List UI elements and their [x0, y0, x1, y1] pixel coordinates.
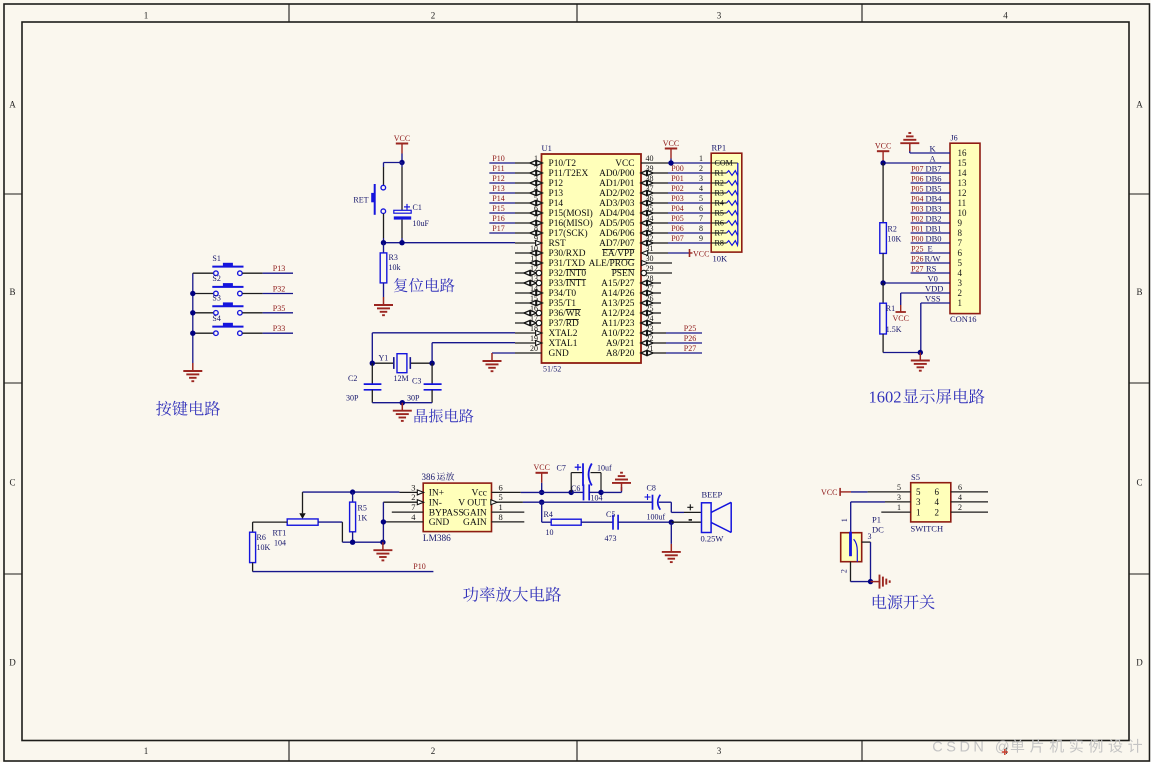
svg-text:RST: RST [549, 239, 566, 249]
wire V0 to R1 [882, 283, 884, 303]
svg-text:P14: P14 [549, 199, 564, 209]
net label P33 [273, 324, 285, 333]
net labels P25-P27 [641, 324, 702, 356]
svg-text:3: 3 [717, 746, 722, 756]
mcu U1 right pin names [589, 159, 635, 359]
resistor R2 [880, 223, 902, 254]
svg-text:V OUT: V OUT [458, 499, 487, 509]
junction [569, 490, 574, 495]
capacitor C2 [346, 363, 381, 403]
svg-text:30P: 30P [346, 394, 359, 403]
switch S2 [212, 274, 243, 296]
svg-text:2: 2 [431, 746, 436, 756]
svg-text:10uF: 10uF [413, 219, 430, 228]
svg-text:10K: 10K [713, 254, 729, 264]
svg-text:VDD: VDD [925, 283, 943, 293]
wire vcc to RET [384, 163, 403, 186]
svg-text:P25: P25 [911, 244, 923, 253]
svg-text:R1: R1 [886, 304, 895, 313]
svg-text:5: 5 [958, 258, 963, 268]
svg-text:P32/INT0: P32/INT0 [549, 269, 587, 279]
ground buttons [183, 363, 202, 381]
svg-text:BYPASS: BYPASS [429, 508, 464, 518]
connector P1 labels [872, 514, 884, 534]
power VCC amp [533, 463, 549, 492]
junction [190, 310, 195, 315]
wire in+ rail [303, 491, 400, 493]
svg-text:IN+: IN+ [429, 489, 444, 499]
wire S1 left [193, 272, 214, 274]
junction [399, 240, 404, 245]
svg-text:P06: P06 [911, 174, 923, 183]
svg-text:4: 4 [699, 184, 703, 193]
mcu U1 AD pin wires to RP1 [641, 171, 711, 246]
wire S4 left [193, 332, 214, 334]
junction [381, 240, 386, 245]
opamp pin stubs [383, 490, 524, 522]
wire P10 net [253, 571, 434, 573]
ground beep [662, 522, 681, 562]
svg-text:5: 5 [499, 492, 503, 502]
net label P13 [273, 264, 285, 273]
svg-text:P11/T2EX: P11/T2EX [549, 169, 589, 179]
svg-text:P33/INT1: P33/INT1 [549, 279, 587, 289]
svg-text:S5: S5 [911, 472, 920, 482]
svg-text:7: 7 [699, 214, 703, 223]
mcu U1 left pin stubs [515, 161, 542, 354]
svg-text:4: 4 [935, 497, 940, 507]
svg-text:V0: V0 [928, 273, 938, 283]
power VCC 1602 [875, 142, 891, 163]
wire XTAL2 net [372, 333, 515, 363]
resistor R4 [544, 510, 582, 537]
wire C8 to beep [659, 502, 702, 512]
svg-text:9: 9 [958, 218, 963, 228]
wire in- down [382, 502, 384, 542]
svg-text:P03: P03 [671, 194, 683, 203]
resistor R1 [880, 303, 902, 334]
svg-text:9: 9 [699, 234, 703, 243]
svg-text:6: 6 [499, 482, 503, 492]
svg-text:RS: RS [926, 263, 937, 273]
svg-text:R4: R4 [715, 199, 724, 208]
capacitor C5 [605, 510, 619, 543]
wire S5 pin1 [881, 511, 910, 513]
svg-text:2: 2 [958, 288, 963, 298]
svg-text:R3: R3 [715, 189, 724, 198]
svg-text:A14/P26: A14/P26 [601, 289, 635, 299]
pin31 EA wire [641, 251, 689, 256]
wire S5 pin3 [851, 501, 911, 503]
svg-text:AD0/P00: AD0/P00 [599, 169, 635, 179]
svg-text:P04: P04 [671, 204, 683, 213]
net labels P00-P07 [671, 164, 683, 243]
label beep plus [687, 504, 693, 510]
svg-text:S4: S4 [212, 314, 220, 323]
capacitor C1 [394, 203, 430, 228]
svg-text:P17(SCK): P17(SCK) [549, 228, 588, 239]
svg-text:P05: P05 [911, 184, 923, 193]
capacitor C3 [407, 363, 442, 403]
svg-text:XTAL1: XTAL1 [549, 339, 578, 349]
svg-text:VCC: VCC [394, 134, 410, 143]
wire S5 right pins [951, 492, 988, 512]
svg-text:CSDN @: CSDN @ [932, 740, 1013, 756]
wire beep minus [671, 521, 701, 523]
svg-text:P1: P1 [872, 514, 881, 524]
svg-text:P06: P06 [671, 224, 683, 233]
svg-text:8: 8 [499, 512, 503, 522]
svg-text:B: B [1136, 287, 1142, 297]
wire rst to R3 [383, 243, 385, 253]
svg-text:0.25W: 0.25W [701, 534, 724, 544]
svg-text:4: 4 [958, 268, 963, 278]
wire S4 right [242, 332, 293, 334]
svg-text:C1: C1 [413, 203, 422, 212]
svg-text:6: 6 [958, 248, 963, 258]
svg-text:1: 1 [144, 746, 149, 756]
svg-text:2: 2 [839, 569, 848, 573]
svg-text:A13/P25: A13/P25 [601, 299, 635, 309]
svg-text:VSS: VSS [925, 293, 941, 303]
svg-text:11: 11 [958, 198, 967, 208]
svg-text:2: 2 [431, 10, 436, 20]
svg-text:P11: P11 [492, 164, 504, 173]
label 晶振电路 [415, 409, 474, 423]
svg-text:12M: 12M [394, 374, 409, 383]
svg-text:R4: R4 [544, 510, 553, 519]
wire crystal gnd row [372, 402, 432, 404]
wire VDD row [901, 292, 950, 294]
label 按键电路 [156, 401, 220, 416]
mcu U1 body [542, 143, 642, 374]
svg-text:GAIN: GAIN [463, 518, 487, 528]
svg-text:AD2/P02: AD2/P02 [599, 189, 635, 199]
svg-text:AD4/P04: AD4/P04 [599, 209, 635, 219]
svg-text:DB5: DB5 [926, 183, 942, 193]
svg-text:C5: C5 [606, 510, 615, 519]
wire R2 to V0 [882, 253, 884, 283]
svg-text:P02: P02 [671, 184, 683, 193]
svg-text:R5: R5 [715, 209, 724, 218]
svg-text:AD6/P06: AD6/P06 [599, 229, 635, 239]
svg-text:U1: U1 [542, 143, 552, 153]
svg-text:1: 1 [840, 518, 849, 522]
junction [880, 280, 885, 285]
svg-text:P35/T1: P35/T1 [549, 299, 577, 309]
svg-text:R5: R5 [358, 504, 367, 513]
svg-text:51/52: 51/52 [543, 365, 561, 374]
svg-text:P13: P13 [492, 184, 504, 193]
svg-text:10: 10 [546, 528, 554, 537]
connector J6 pin names and nets [911, 143, 950, 303]
switch S4 [212, 314, 243, 336]
svg-text:AD7/P07: AD7/P07 [599, 239, 635, 249]
svg-text:386: 386 [422, 472, 436, 482]
svg-text:R7: R7 [715, 229, 724, 238]
wire S2 right [242, 293, 293, 295]
svg-text:A15/P27: A15/P27 [601, 279, 635, 289]
label beep minus [689, 519, 692, 521]
svg-text:P16: P16 [492, 214, 504, 223]
svg-text:S3: S3 [212, 293, 220, 302]
wire RET to rst [383, 214, 385, 243]
svg-text:1: 1 [699, 154, 703, 163]
watermark CSDN [932, 739, 1142, 756]
label 1602显示屏电路 [869, 388, 985, 407]
svg-text:1: 1 [499, 502, 503, 512]
svg-text:R2: R2 [888, 225, 897, 234]
wire vout to R4 [542, 502, 552, 522]
wire S3 right [242, 312, 293, 314]
svg-text:10: 10 [958, 208, 968, 218]
svg-text:ALE/PROG: ALE/PROG [589, 259, 635, 269]
svg-text:COM: COM [715, 159, 733, 168]
junction [918, 350, 923, 355]
svg-text:CON16: CON16 [950, 314, 976, 324]
svg-text:E: E [928, 243, 933, 253]
svg-text:4: 4 [1003, 10, 1008, 20]
power VCC reset [394, 134, 410, 163]
svg-text:3: 3 [958, 278, 963, 288]
svg-text:Y1: Y1 [379, 353, 389, 362]
svg-text:P13: P13 [273, 264, 285, 273]
svg-text:VCC: VCC [875, 142, 891, 151]
svg-text:3: 3 [916, 497, 921, 507]
svg-text:DB3: DB3 [926, 203, 942, 213]
crystal Y1 [374, 353, 430, 383]
power VCC switch [821, 488, 911, 497]
svg-text:P35: P35 [273, 304, 285, 313]
svg-text:30P: 30P [407, 394, 420, 403]
switch S5 pin numbers [897, 483, 962, 518]
svg-text:P03: P03 [911, 204, 923, 213]
svg-text:LM386: LM386 [423, 534, 451, 544]
ground 1602 [911, 353, 930, 371]
svg-text:VCC: VCC [663, 139, 679, 148]
power VCC pin31 [690, 249, 710, 258]
svg-text:P02: P02 [911, 214, 923, 223]
svg-text:GAIN: GAIN [463, 508, 487, 518]
label 功率放大电路 [463, 587, 561, 602]
svg-text:8: 8 [958, 228, 963, 238]
mcu U1 pin numbers [530, 154, 654, 353]
svg-text:P01: P01 [911, 224, 923, 233]
svg-text:1: 1 [958, 298, 963, 308]
svg-text:C3: C3 [412, 377, 421, 386]
junction [880, 160, 885, 165]
svg-text:2: 2 [935, 507, 940, 517]
svg-text:14: 14 [958, 168, 968, 178]
pushbutton RET [353, 184, 385, 215]
junction [399, 160, 404, 165]
ground reset [374, 297, 393, 315]
junction [400, 400, 405, 405]
svg-text:2: 2 [958, 503, 962, 512]
svg-text:VCC: VCC [892, 314, 908, 323]
ground J6 K [900, 133, 919, 151]
capacitor C8 [645, 484, 666, 522]
junction [190, 291, 195, 296]
svg-text:A8/P20: A8/P20 [606, 349, 635, 359]
net label P35 [273, 304, 285, 313]
svg-text:BEEP: BEEP [702, 490, 723, 500]
svg-text:13: 13 [958, 178, 968, 188]
svg-text:6: 6 [935, 487, 940, 497]
svg-text:1602: 1602 [869, 388, 902, 407]
svg-text:SWITCH: SWITCH [911, 523, 944, 533]
svg-text:P37/RD: P37/RD [549, 319, 579, 329]
svg-text:R1: R1 [715, 169, 724, 178]
svg-text:A: A [9, 100, 16, 110]
wire C5 to gnd node [618, 521, 671, 523]
svg-text:P25: P25 [684, 324, 696, 333]
resistor R6 [250, 522, 271, 572]
svg-text:P10/T2: P10/T2 [549, 159, 577, 169]
svg-text:A9/P21: A9/P21 [606, 339, 635, 349]
svg-text:P10: P10 [413, 562, 425, 571]
svg-text:XTAL2: XTAL2 [549, 329, 578, 339]
svg-text:DB4: DB4 [926, 193, 943, 203]
svg-text:P16(MISO): P16(MISO) [549, 218, 593, 229]
svg-text:DC: DC [872, 524, 884, 534]
junction [598, 490, 603, 495]
svg-text:3: 3 [717, 10, 722, 20]
svg-text:A12/P24: A12/P24 [601, 309, 635, 319]
svg-text:8: 8 [699, 224, 703, 233]
svg-text:RET: RET [353, 195, 368, 204]
svg-text:P27: P27 [911, 264, 923, 273]
resistor pack RP1 body [711, 142, 742, 263]
svg-text:D: D [1136, 658, 1143, 668]
svg-text:RT1: RT1 [273, 529, 287, 538]
capacitor C7 [557, 463, 613, 492]
net labels P10-P17 [489, 154, 515, 233]
svg-text:P17: P17 [492, 224, 504, 233]
svg-text:5: 5 [699, 194, 703, 203]
wire pin40 VCC to RP1 [641, 162, 711, 164]
wire button common rail [192, 273, 194, 363]
svg-text:P33: P33 [273, 324, 285, 333]
svg-text:R2: R2 [715, 179, 724, 188]
svg-text:12: 12 [958, 188, 967, 198]
switch S3 [212, 293, 243, 315]
pin30 ALE stub [642, 261, 672, 266]
svg-text:R/W: R/W [925, 253, 941, 263]
svg-text:104: 104 [274, 539, 286, 548]
ground crystal [393, 403, 412, 421]
svg-text:C8: C8 [647, 484, 656, 493]
svg-text:2: 2 [411, 492, 415, 502]
svg-text:6: 6 [958, 483, 962, 492]
label 电源开关 [873, 595, 935, 610]
net label P10 [413, 562, 425, 571]
svg-text:6: 6 [699, 204, 703, 213]
junction [669, 520, 674, 525]
svg-text:AD1/P01: AD1/P01 [599, 179, 635, 189]
svg-text:2: 2 [699, 164, 703, 173]
svg-text:P31/TXD: P31/TXD [549, 259, 586, 269]
svg-text:P07: P07 [671, 234, 683, 243]
wire vcc to R2 [882, 163, 884, 223]
svg-text:C: C [9, 478, 15, 488]
svg-text:P27: P27 [684, 344, 696, 353]
svg-text:S2: S2 [212, 274, 220, 283]
svg-text:P12: P12 [549, 179, 564, 189]
svg-text:A11/P23: A11/P23 [602, 319, 635, 329]
svg-text:D: D [9, 658, 16, 668]
svg-text:AD3/P03: AD3/P03 [599, 199, 635, 209]
wire XTAL1 net [432, 343, 515, 364]
svg-text:P30/RXD: P30/RXD [549, 249, 586, 259]
wire V0 row [883, 282, 950, 284]
wire pin3 down to P1 [850, 502, 852, 532]
svg-text:K: K [930, 143, 937, 153]
ground amp input [373, 542, 392, 560]
label 复位电路 [394, 278, 455, 292]
svg-text:P14: P14 [492, 194, 504, 203]
svg-text:100uf: 100uf [647, 513, 666, 522]
resistor pack RP1 pins [699, 154, 738, 248]
svg-text:P13: P13 [549, 189, 564, 199]
wire P1 pin2 [851, 562, 871, 582]
wire K to gnd [910, 147, 950, 153]
ground amp vcc [612, 473, 631, 493]
svg-text:VCC: VCC [821, 488, 837, 497]
opamp LM386 body [422, 472, 492, 544]
svg-text:VCC: VCC [533, 463, 549, 472]
svg-text:P01: P01 [671, 174, 683, 183]
junction [868, 579, 873, 584]
wire vout row [523, 501, 653, 503]
svg-text:P04: P04 [911, 194, 923, 203]
svg-text:1K: 1K [358, 514, 368, 523]
resistor R3 [380, 253, 400, 283]
svg-text:PSEN: PSEN [612, 269, 635, 279]
svg-text:10K: 10K [888, 235, 902, 244]
svg-text:DB0: DB0 [926, 233, 942, 243]
svg-text:S1: S1 [212, 254, 220, 263]
svg-text:AD5/P05: AD5/P05 [599, 219, 635, 229]
power VCC pin40 [663, 139, 679, 163]
ground U1 [483, 353, 502, 371]
wire vcc to C1 [401, 163, 403, 211]
svg-text:1: 1 [916, 507, 921, 517]
mcu U1 left pin names [549, 159, 593, 359]
svg-text:R8: R8 [715, 239, 724, 248]
connector J6 body [950, 133, 980, 323]
svg-text:P34/T0: P34/T0 [549, 289, 577, 299]
svg-text:P26: P26 [911, 254, 923, 263]
svg-text:RP1: RP1 [712, 142, 727, 152]
svg-text:GND: GND [429, 518, 450, 528]
svg-text:1: 1 [897, 503, 901, 512]
svg-text:Vcc: Vcc [472, 489, 487, 499]
wire R4 to C5 [581, 521, 613, 523]
svg-text:P00: P00 [671, 164, 683, 173]
junction [350, 540, 355, 545]
svg-text:40: 40 [646, 154, 654, 163]
opamp LM386 pin labels [411, 482, 503, 528]
svg-text:DB2: DB2 [926, 213, 942, 223]
wire RST net [384, 242, 516, 244]
switch S1 [212, 254, 243, 276]
svg-text:A10/P22: A10/P22 [601, 329, 635, 339]
svg-text:473: 473 [605, 534, 617, 543]
svg-text:DB7: DB7 [926, 163, 942, 173]
svg-text:3: 3 [411, 482, 415, 492]
svg-text:GND: GND [549, 349, 570, 359]
